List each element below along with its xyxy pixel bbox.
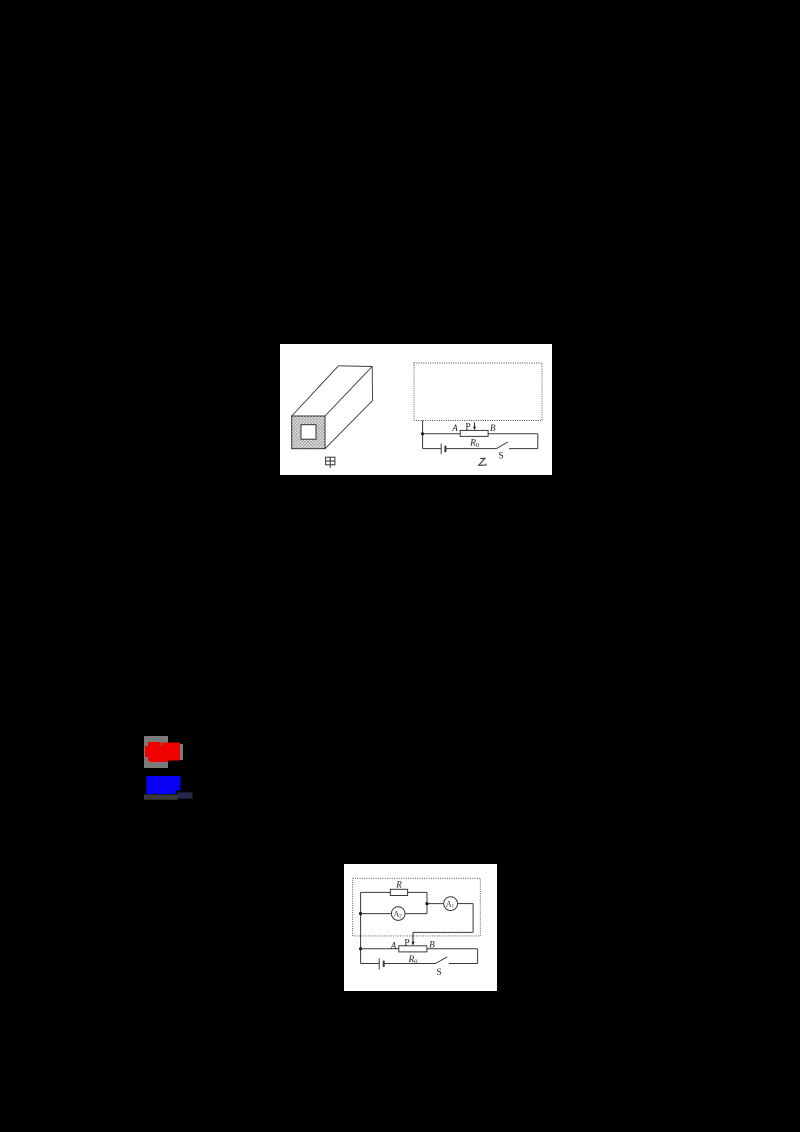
rheostat R0 body bbox=[399, 945, 427, 951]
dashed empty box bbox=[414, 363, 542, 421]
tube inner hole square bbox=[301, 425, 316, 440]
battery long plate bbox=[440, 444, 442, 454]
ammeter A1 bbox=[443, 896, 457, 910]
svg-text:B: B bbox=[489, 423, 495, 433]
wire: parallel right vertical bbox=[426, 892, 428, 913]
hollow square tube: hatched front ring bbox=[291, 416, 324, 449]
battery short plate bbox=[444, 446, 446, 453]
wire: top left segment bbox=[422, 433, 460, 435]
node dot left parallel bbox=[359, 912, 362, 915]
ammeter circuit white panel bbox=[344, 864, 497, 992]
node dot right parallel bbox=[425, 902, 428, 905]
wire: right vertical bbox=[536, 434, 538, 449]
wire: main right segment bbox=[427, 947, 478, 949]
red highlighted mark bbox=[140, 732, 200, 804]
svg-text:R0: R0 bbox=[469, 439, 479, 450]
switch S blade bbox=[496, 442, 507, 449]
wire: top branch left bbox=[360, 891, 390, 893]
battery long plate bbox=[378, 958, 380, 969]
resistor R body bbox=[390, 889, 407, 895]
tube back right edge bbox=[371, 367, 373, 401]
wire: left vertical bbox=[359, 892, 361, 963]
tube top-right depth edge bbox=[325, 367, 372, 417]
svg-text:P: P bbox=[465, 423, 470, 433]
switch S blade bbox=[435, 957, 447, 964]
label yi (Chinese) bbox=[478, 458, 486, 465]
wire: bottom right segment bbox=[449, 962, 478, 964]
tube front outer square bbox=[291, 416, 324, 449]
svg-text:B: B bbox=[429, 939, 435, 949]
svg-text:S: S bbox=[436, 968, 441, 978]
node dot main wire bbox=[359, 947, 362, 950]
svg-text:A: A bbox=[451, 423, 458, 433]
wire: main left segment bbox=[360, 947, 398, 949]
label jia (Chinese) bbox=[325, 457, 334, 468]
battery short plate bbox=[382, 960, 384, 966]
wire: horizontal return bbox=[413, 931, 473, 933]
svg-text:R: R bbox=[395, 879, 402, 889]
tube top-left depth edge bbox=[291, 366, 338, 416]
wire: A1 branch right bbox=[458, 902, 473, 904]
wire: bottom left segment bbox=[422, 448, 441, 450]
wire: bottom left segment bbox=[360, 962, 379, 964]
wire: right outer vertical bbox=[476, 948, 478, 963]
wire: A1 branch left bbox=[427, 902, 443, 904]
wire: left vertical bbox=[421, 421, 423, 449]
node junction dot bbox=[421, 432, 424, 435]
wire: A2 branch right bbox=[405, 912, 427, 914]
dashed box bbox=[352, 878, 480, 936]
wire: slider drop with arrow bbox=[411, 932, 414, 945]
tube bottom-right depth edge bbox=[325, 401, 373, 449]
rheostat R0 body bbox=[460, 430, 488, 436]
wire: right vertical inside dashed bbox=[472, 903, 474, 932]
wire: bottom right segment bbox=[509, 448, 538, 450]
wire: A2 branch left bbox=[360, 912, 390, 914]
wire: bottom middle segment bbox=[445, 448, 496, 450]
figure jia/yi white panel bbox=[280, 344, 552, 475]
blue highlighted mark bbox=[140, 772, 200, 804]
slider arrow bbox=[473, 423, 476, 431]
wire: top right segment bbox=[488, 433, 538, 435]
svg-text:S: S bbox=[498, 452, 503, 462]
wire: bottom middle segment bbox=[383, 962, 435, 964]
wire: top branch right bbox=[407, 891, 426, 893]
tube back top edge bbox=[338, 365, 372, 368]
ammeter A2 bbox=[391, 906, 405, 920]
